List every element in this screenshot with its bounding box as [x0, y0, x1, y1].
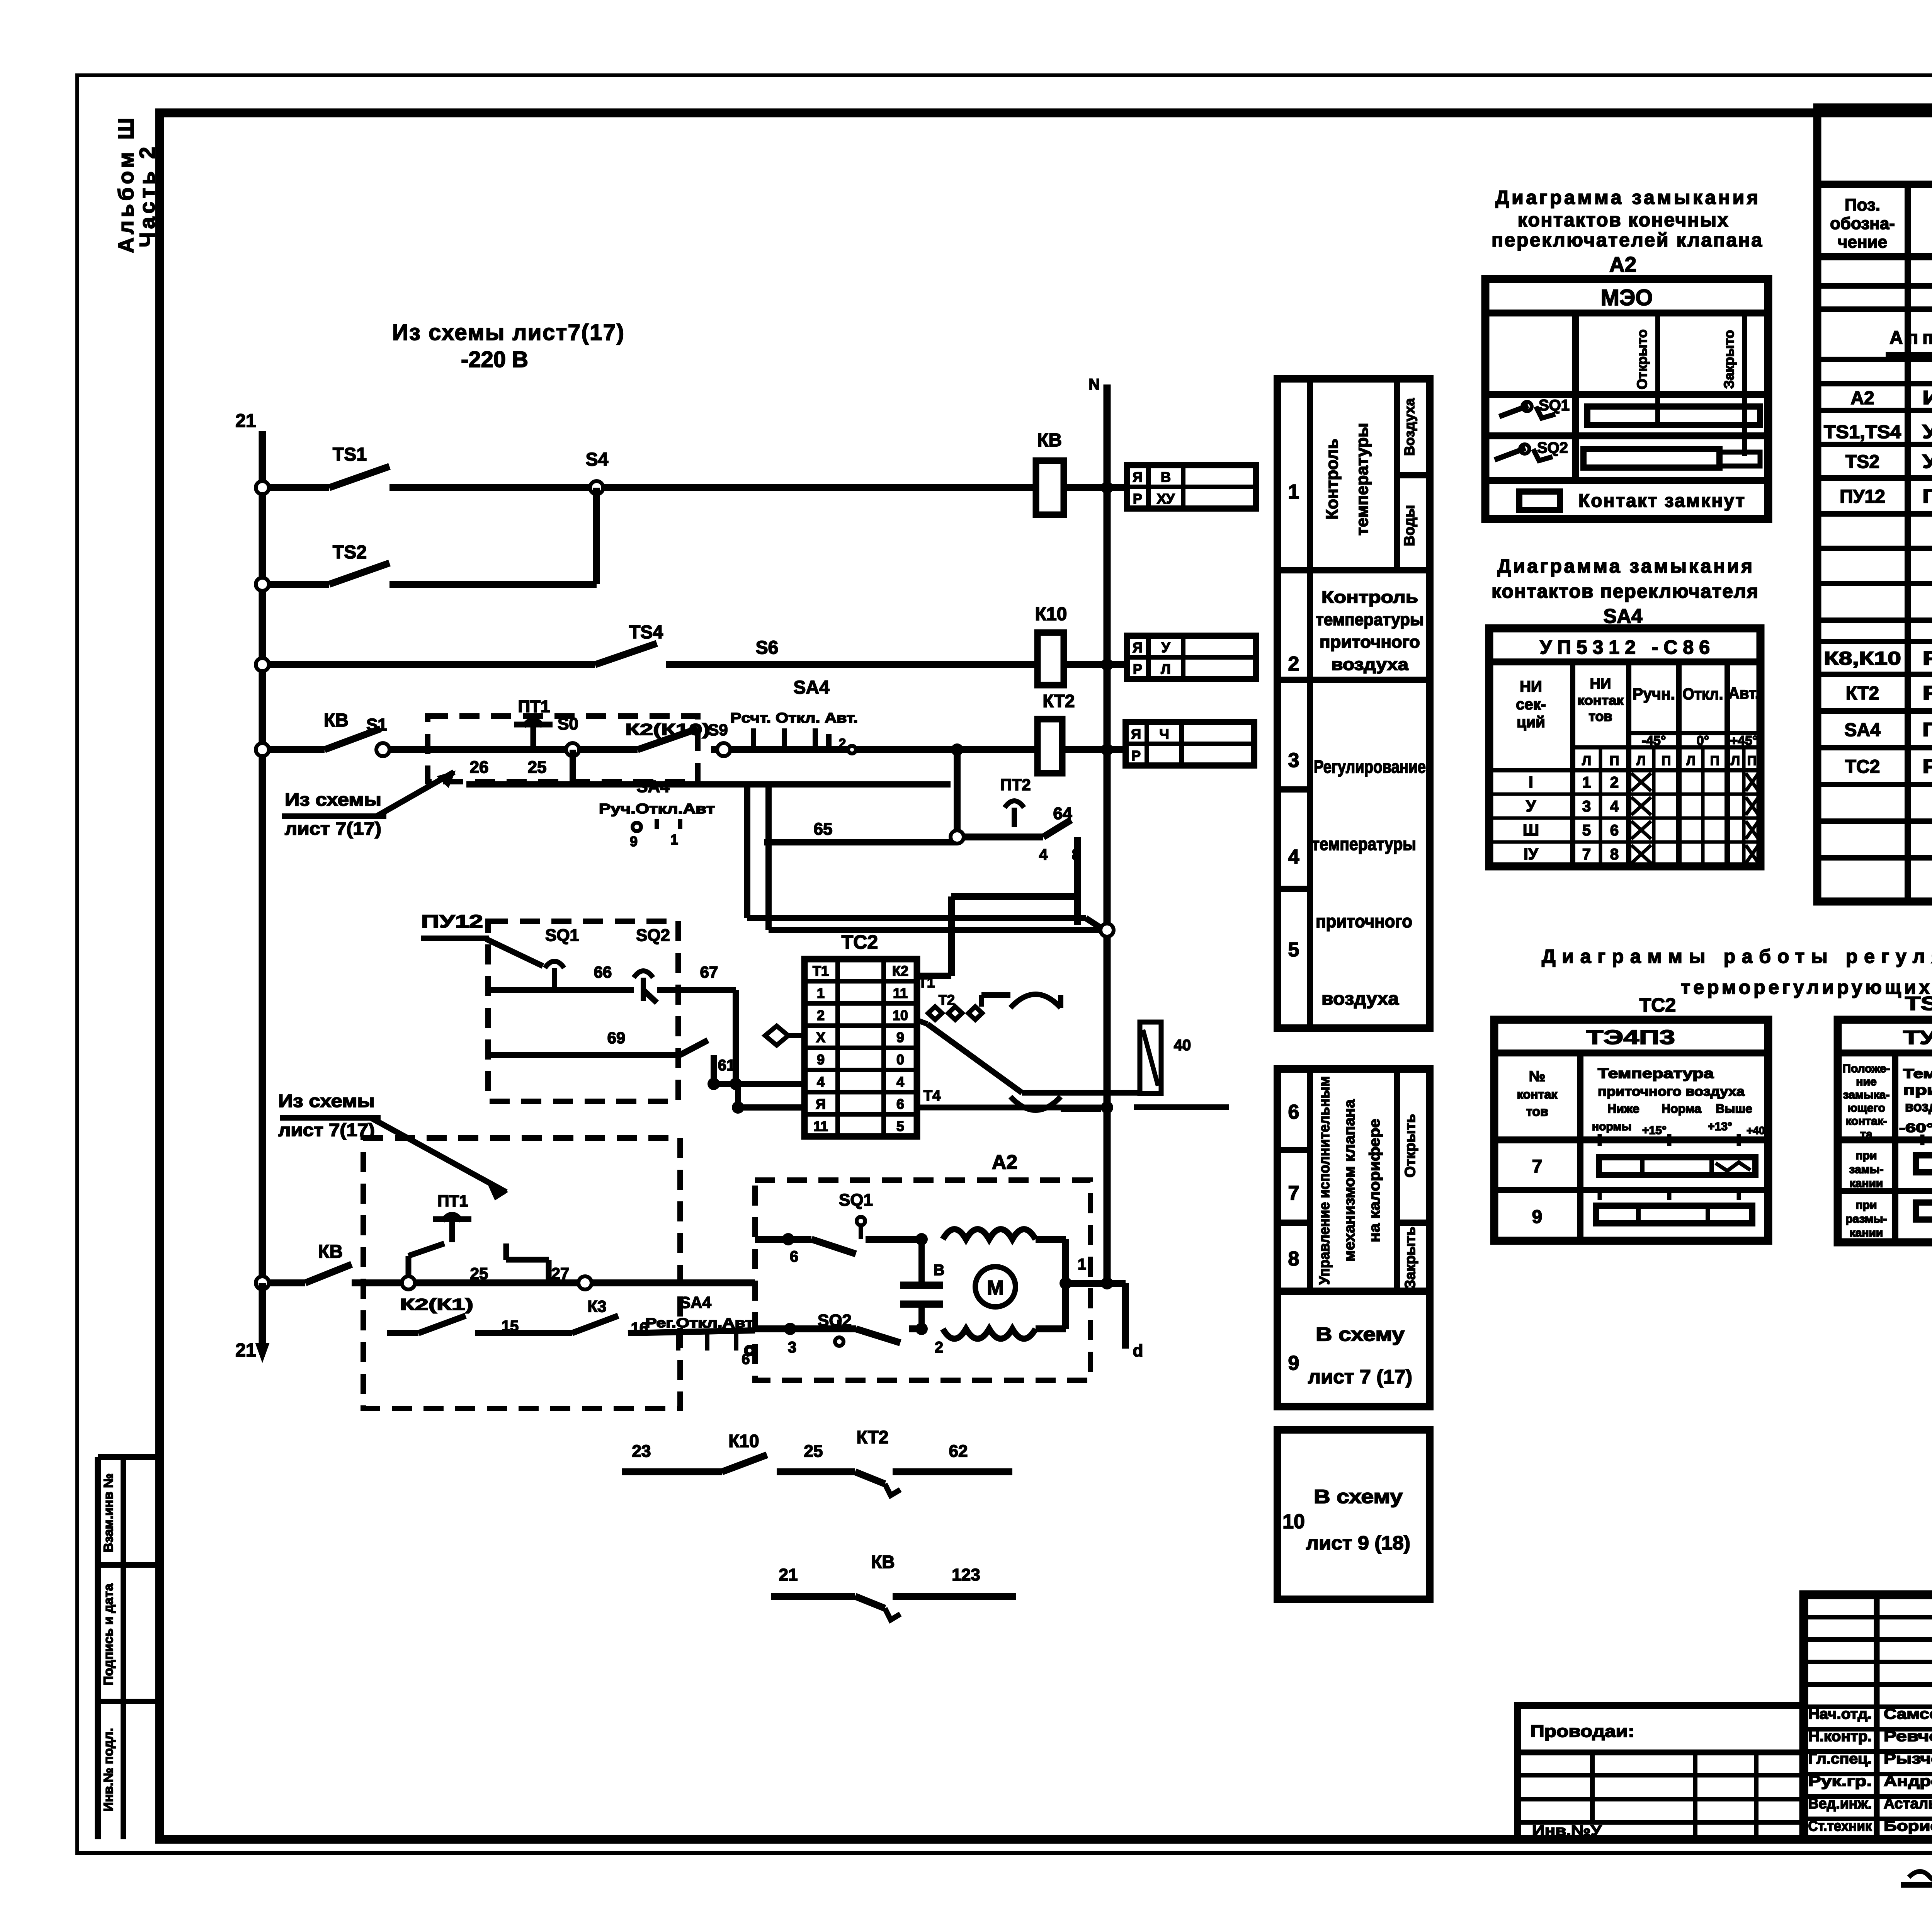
svg-text:ПУ12: ПУ12 — [421, 911, 483, 931]
svg-text:10: 10 — [893, 1007, 908, 1023]
svg-text:терморегулирующих устройств: терморегулирующих устройств — [1681, 976, 1932, 998]
svg-text:4: 4 — [817, 1074, 825, 1090]
svg-text:Поз.: Поз. — [1845, 196, 1880, 214]
svg-text:ХУ: ХУ — [1157, 491, 1175, 507]
svg-text:123: 123 — [952, 1565, 980, 1584]
svg-text:Взам.инв №: Взам.инв № — [101, 1473, 116, 1552]
svg-text:6: 6 — [790, 1248, 798, 1265]
svg-text:К2(К1): К2(К1) — [400, 1295, 473, 1313]
svg-text:Контроль: Контроль — [1323, 439, 1342, 520]
svg-text:+40: +40 — [1747, 1124, 1765, 1136]
svg-text:ТS2: ТS2 — [333, 542, 367, 563]
svg-text:Руч.Откл.Авт: Руч.Откл.Авт — [599, 801, 715, 816]
svg-text:Реле ВЛ40 -tимп. 1-10с , t: Реле ВЛ40 -tимп. 1-10с , tп 10-100с — [1922, 682, 1932, 704]
svg-text:КВ: КВ — [324, 710, 349, 731]
svg-text:Р: Р — [1133, 661, 1142, 677]
svg-text:№: № — [1529, 1068, 1545, 1085]
svg-text:механизмом клапана: механизмом клапана — [1342, 1099, 1358, 1262]
svg-text:температуры: температуры — [1353, 423, 1372, 535]
svg-text:кании: кании — [1850, 1226, 1883, 1239]
svg-text:SА4: SА4 — [1844, 720, 1881, 740]
svg-text:Аппаратура по месту: Аппаратура по месту — [1889, 328, 1932, 348]
svg-text:П: П — [1747, 754, 1757, 768]
svg-text:Проводаи:: Проводаи: — [1530, 1722, 1634, 1741]
svg-text:11: 11 — [813, 1118, 828, 1134]
svg-text:Рук.гр.: Рук.гр. — [1808, 1773, 1872, 1789]
svg-text:7: 7 — [1532, 1157, 1543, 1177]
svg-text:2: 2 — [935, 1339, 943, 1356]
svg-text:ТS4: ТS4 — [629, 622, 663, 643]
svg-text:3: 3 — [1582, 798, 1591, 815]
svg-text:62: 62 — [949, 1442, 968, 1461]
svg-text:2: 2 — [1288, 653, 1299, 675]
svg-text:Рег.Откл.Авт: Рег.Откл.Авт — [645, 1316, 753, 1330]
svg-text:Откл.: Откл. — [1683, 685, 1723, 703]
svg-text:Борисова: Борисова — [1884, 1818, 1932, 1834]
svg-text:N: N — [1089, 376, 1100, 393]
svg-text:А2: А2 — [992, 1151, 1017, 1174]
svg-text:Р: Р — [1133, 491, 1142, 507]
svg-text:SА4: SА4 — [636, 777, 670, 796]
svg-text:ТS2: ТS2 — [1845, 452, 1879, 472]
svg-text:ние: ние — [1856, 1075, 1876, 1088]
svg-text:КВ: КВ — [871, 1552, 895, 1572]
svg-text:Регулирование: Регулирование — [1314, 757, 1426, 777]
svg-text:А2: А2 — [1609, 252, 1636, 276]
svg-text:25: 25 — [804, 1442, 823, 1461]
svg-text:А2: А2 — [1850, 388, 1874, 408]
svg-text:воздуха: воздуха — [1905, 1099, 1932, 1114]
svg-text:ТУАЭ-1: ТУАЭ-1 — [1903, 1027, 1932, 1048]
svg-text:ТС2: ТС2 — [1639, 994, 1676, 1016]
svg-text:У: У — [1526, 797, 1536, 815]
svg-text:КВ: КВ — [318, 1242, 343, 1262]
svg-text:Норма: Норма — [1662, 1102, 1701, 1116]
svg-text:Положе-: Положе- — [1842, 1062, 1890, 1075]
svg-text:6: 6 — [1288, 1101, 1299, 1123]
svg-text:Я: Я — [816, 1096, 826, 1112]
svg-text:Вед.инж.: Вед.инж. — [1808, 1796, 1872, 1812]
svg-text:размы-: размы- — [1845, 1213, 1887, 1225]
svg-text:Открыть: Открыть — [1402, 1114, 1418, 1178]
svg-text:9: 9 — [817, 1052, 825, 1068]
svg-text:SА4: SА4 — [680, 1293, 711, 1311]
svg-text:В схему: В схему — [1316, 1323, 1405, 1345]
svg-text:Н.контр.: Н.контр. — [1808, 1728, 1872, 1745]
svg-text:на калорифере: на калорифере — [1367, 1119, 1383, 1242]
svg-text:S6: S6 — [756, 638, 779, 658]
svg-text:контак: контак — [1577, 693, 1624, 708]
svg-text:3: 3 — [788, 1339, 796, 1356]
svg-text:4: 4 — [1288, 846, 1299, 868]
svg-text:S4: S4 — [586, 449, 609, 470]
svg-text:обозна-: обозна- — [1830, 214, 1895, 233]
svg-text:Нач.отд.: Нач.отд. — [1808, 1706, 1872, 1722]
svg-text:Инв.№ подл.: Инв.№ подл. — [101, 1728, 116, 1812]
svg-text:23: 23 — [632, 1442, 651, 1461]
svg-text:В схему: В схему — [1314, 1486, 1403, 1507]
svg-text:Р: Р — [1131, 748, 1141, 764]
svg-text:Л: Л — [1636, 754, 1646, 768]
svg-text:1: 1 — [1582, 774, 1591, 791]
svg-text:ТS1,ТS4: ТS1,ТS4 — [1824, 422, 1901, 442]
svg-text:9: 9 — [896, 1029, 904, 1045]
svg-text:Закрыто: Закрыто — [1721, 330, 1737, 389]
svg-text:К10: К10 — [1035, 604, 1067, 624]
svg-text:Авт.: Авт. — [1728, 684, 1759, 702]
svg-text:замыка-: замыка- — [1843, 1089, 1890, 1101]
svg-text:64: 64 — [1053, 804, 1072, 823]
svg-text:ТS1, ТS4: ТS1, ТS4 — [1905, 993, 1932, 1014]
svg-text:Диаграмма замыкания: Диаграмма замыкания — [1497, 555, 1752, 577]
svg-text:при: при — [1856, 1199, 1877, 1211]
svg-text:ТС2: ТС2 — [842, 931, 878, 953]
svg-text:+13°: +13° — [1708, 1120, 1732, 1133]
svg-text:Андреева: Андреева — [1884, 1773, 1932, 1789]
svg-text:Л: Л — [1686, 754, 1696, 768]
svg-text:SА4: SА4 — [1603, 605, 1642, 628]
svg-text:замы-: замы- — [1849, 1163, 1883, 1176]
svg-text:SQ1: SQ1 — [839, 1191, 873, 1209]
svg-text:Контакт замкнут: Контакт замкнут — [1578, 491, 1745, 511]
svg-text:Ревченко: Ревченко — [1884, 1728, 1932, 1745]
svg-text:S1: S1 — [366, 715, 387, 734]
svg-text:4: 4 — [1039, 846, 1048, 863]
svg-text:Ручн.: Ручн. — [1633, 685, 1675, 703]
svg-text:Ш: Ш — [1523, 821, 1539, 839]
svg-text:Закрыть: Закрыть — [1402, 1226, 1418, 1289]
svg-text:Из схемы: Из схемы — [278, 1091, 375, 1111]
svg-text:Открыто: Открыто — [1634, 329, 1650, 390]
svg-text:нормы: нормы — [1592, 1120, 1631, 1133]
svg-text:40: 40 — [1174, 1037, 1191, 1054]
svg-text:КТ2: КТ2 — [857, 1427, 889, 1447]
svg-text:КТ2: КТ2 — [1043, 691, 1075, 711]
svg-text:+15°: +15° — [1642, 1124, 1667, 1137]
svg-text:К2: К2 — [892, 963, 908, 979]
svg-text:2: 2 — [817, 1007, 825, 1023]
svg-text:ПТ2: ПТ2 — [1000, 776, 1031, 794]
svg-text:Л: Л — [1582, 754, 1591, 768]
svg-text:тов: тов — [1588, 708, 1612, 724]
svg-text:S9: S9 — [708, 721, 728, 739]
svg-text:ющего: ющего — [1847, 1102, 1885, 1114]
svg-text:кании: кании — [1850, 1177, 1883, 1190]
svg-text:Инв.№У: Инв.№У — [1532, 1823, 1602, 1839]
svg-text:67: 67 — [700, 963, 718, 981]
svg-text:Реле РПУ-2-М36220У3Б И~: Реле РПУ-2-М36220У3Б И~220 В — [1922, 647, 1932, 669]
svg-text:контак-: контак- — [1845, 1115, 1887, 1128]
svg-text:Т4: Т4 — [923, 1088, 940, 1104]
svg-text:Самсонов: Самсонов — [1884, 1706, 1932, 1722]
svg-text:Воды: Воды — [1401, 505, 1418, 546]
svg-text:Ст.техник: Ст.техник — [1808, 1818, 1872, 1834]
svg-text:контак: контак — [1517, 1087, 1558, 1101]
svg-text:Подпись и дата: Подпись и дата — [101, 1583, 116, 1686]
svg-text:контактов конечных: контактов конечных — [1518, 209, 1728, 231]
svg-text:воздуха: воздуха — [1321, 988, 1399, 1009]
svg-text:5: 5 — [1288, 939, 1299, 961]
svg-text:Л: Л — [1731, 754, 1740, 768]
svg-text:-220 В: -220 В — [461, 347, 528, 372]
svg-text:21: 21 — [235, 1340, 256, 1361]
svg-text:Устройство терморегулирующее: Устройство терморегулирующее ТУАЭ-4 — [1922, 451, 1932, 472]
svg-text:Контроль: Контроль — [1321, 588, 1418, 607]
svg-text:К8,К10: К8,К10 — [1824, 648, 1901, 669]
svg-text:Температура: Температура — [1903, 1067, 1932, 1081]
svg-text:Гл.спец.: Гл.спец. — [1808, 1751, 1872, 1767]
svg-text:ПТ1: ПТ1 — [518, 697, 550, 716]
svg-text:лист 7(17): лист 7(17) — [278, 1120, 375, 1140]
svg-text:ций: ций — [1517, 714, 1545, 731]
svg-text:НИ: НИ — [1520, 678, 1542, 695]
svg-text:Управление исполнительным: Управление исполнительным — [1316, 1076, 1333, 1285]
svg-text:Ниже: Ниже — [1607, 1102, 1639, 1116]
svg-text:П: П — [1610, 754, 1619, 768]
svg-text:ПУ12: ПУ12 — [1840, 486, 1885, 507]
svg-text:6: 6 — [1610, 822, 1619, 839]
svg-text:КВ: КВ — [1037, 430, 1062, 451]
svg-text:3: 3 — [1288, 749, 1299, 772]
svg-text:переключателей клапана: переключателей клапана — [1492, 229, 1762, 251]
svg-text:Пост управления ПКЕ222-2У3: Пост управления ПКЕ222-2У3 — [1922, 485, 1932, 507]
svg-text:SQ2: SQ2 — [1537, 439, 1568, 456]
svg-text:П: П — [1662, 754, 1671, 768]
svg-text:15: 15 — [502, 1318, 519, 1335]
svg-text:Температура: Температура — [1598, 1065, 1714, 1081]
svg-text:Исполнительный механизм МЭО: Исполнительный механизм МЭО ~220 В — [1922, 387, 1932, 408]
svg-text:приточного: приточного — [1903, 1082, 1932, 1098]
svg-text:5: 5 — [1582, 822, 1591, 839]
svg-text:11: 11 — [893, 985, 908, 1001]
svg-text:5: 5 — [896, 1118, 904, 1134]
svg-text:Переключатель УП5312-С86: Переключатель УП5312-С86 — [1922, 719, 1932, 740]
svg-text:Т1: Т1 — [813, 963, 829, 979]
svg-text:Я: Я — [1133, 640, 1143, 655]
svg-text:Я: Я — [1131, 726, 1141, 742]
svg-text:9: 9 — [1288, 1352, 1299, 1374]
svg-text:9: 9 — [1532, 1207, 1543, 1227]
svg-text:Регулятор температуры ТЭ4П3: Регулятор температуры ТЭ4П3 И~220 В — [1922, 755, 1932, 777]
svg-text:7: 7 — [1582, 846, 1591, 863]
svg-text:приточного: приточного — [1320, 633, 1420, 651]
svg-text:d: d — [1133, 1341, 1143, 1360]
svg-text:ТС2: ТС2 — [1845, 757, 1880, 777]
svg-text:контактов переключателя: контактов переключателя — [1492, 580, 1758, 602]
svg-text:температуры: температуры — [1312, 834, 1416, 854]
svg-text:61: 61 — [718, 1057, 735, 1074]
svg-text:IУ: IУ — [1524, 845, 1539, 863]
svg-text:Диаграмма замыкания: Диаграмма замыкания — [1495, 187, 1758, 208]
svg-text:ТЭ4П3: ТЭ4П3 — [1586, 1026, 1675, 1049]
svg-text:21: 21 — [779, 1565, 798, 1584]
svg-text:SQ1: SQ1 — [545, 926, 579, 945]
svg-text:У: У — [1162, 640, 1170, 655]
svg-text:SQ2: SQ2 — [636, 926, 670, 945]
svg-text:УП5312 -С86: УП5312 -С86 — [1540, 636, 1710, 658]
svg-text:МЭО: МЭО — [1601, 285, 1653, 310]
svg-text:при: при — [1856, 1149, 1877, 1162]
svg-text:лист 7 (17): лист 7 (17) — [1308, 1366, 1412, 1388]
svg-text:4: 4 — [1610, 798, 1619, 815]
svg-text:Рызченко: Рызченко — [1884, 1751, 1932, 1767]
svg-text:25: 25 — [528, 758, 547, 777]
svg-text:НИ: НИ — [1590, 676, 1611, 692]
svg-text:лист 9 (18): лист 9 (18) — [1306, 1532, 1410, 1554]
svg-text:Х: Х — [816, 1029, 825, 1045]
svg-text:-60° +3° +5° +40°: -60° +3° +5° +40° — [1899, 1121, 1932, 1135]
svg-text:Воздуха: Воздуха — [1401, 398, 1417, 456]
svg-text:8: 8 — [1288, 1248, 1299, 1270]
svg-text:ПТ1: ПТ1 — [437, 1192, 468, 1210]
svg-text:Ч: Ч — [1159, 726, 1169, 742]
svg-text:В: В — [934, 1262, 945, 1279]
svg-text:10: 10 — [1282, 1510, 1305, 1533]
svg-text:приточного воздуха: приточного воздуха — [1598, 1084, 1745, 1099]
svg-text:65: 65 — [814, 820, 833, 839]
svg-text:ТS1: ТS1 — [333, 444, 367, 465]
svg-text:2: 2 — [1610, 774, 1619, 791]
svg-text:КТ2: КТ2 — [1846, 683, 1879, 704]
svg-text:приточного: приточного — [1316, 911, 1412, 931]
svg-text:26: 26 — [470, 758, 489, 777]
svg-text:6: 6 — [896, 1096, 904, 1112]
svg-text:69: 69 — [607, 1029, 626, 1047]
svg-text:SА4: SА4 — [793, 677, 830, 698]
svg-text:1: 1 — [1288, 481, 1299, 503]
svg-text:9: 9 — [630, 833, 638, 849]
svg-text:2: 2 — [839, 736, 846, 751]
svg-text:21: 21 — [235, 411, 256, 431]
svg-text:сек-: сек- — [1516, 696, 1546, 713]
svg-text:К3: К3 — [588, 1297, 607, 1315]
svg-text:Рсчт. Откл. Авт.: Рсчт. Откл. Авт. — [730, 710, 858, 726]
svg-text:4: 4 — [896, 1074, 904, 1090]
svg-text:0: 0 — [896, 1052, 904, 1068]
svg-text:тов: тов — [1526, 1104, 1548, 1119]
svg-text:1: 1 — [1078, 1256, 1086, 1273]
svg-text:Астальцева: Астальцева — [1884, 1796, 1932, 1812]
svg-text:воздуха: воздуха — [1331, 655, 1409, 674]
svg-text:температуры: температуры — [1316, 610, 1424, 629]
svg-text:та: та — [1860, 1128, 1872, 1141]
svg-text:I: I — [1529, 773, 1533, 791]
svg-text:К10: К10 — [728, 1431, 759, 1451]
svg-text:SQ1: SQ1 — [1539, 397, 1570, 414]
svg-text:1: 1 — [817, 985, 825, 1001]
svg-text:8: 8 — [1610, 846, 1619, 863]
svg-text:Из схемы: Из схемы — [285, 789, 381, 810]
svg-text:7: 7 — [1288, 1182, 1299, 1204]
svg-text:Л: Л — [1161, 661, 1170, 677]
svg-text:М: М — [987, 1277, 1003, 1299]
svg-text:Я: Я — [1133, 469, 1143, 485]
svg-text:66: 66 — [594, 963, 612, 981]
svg-text:Устройство терморегулирующее: Устройство терморегулирующее ТУАЭ-1 — [1922, 421, 1932, 442]
svg-text:Выше: Выше — [1716, 1102, 1752, 1116]
svg-text:Т1: Т1 — [918, 975, 935, 990]
svg-text:Т2: Т2 — [939, 992, 955, 1008]
svg-text:В: В — [1161, 469, 1171, 485]
svg-text:чение: чение — [1838, 233, 1887, 252]
svg-text:П: П — [1710, 754, 1719, 768]
svg-text:1: 1 — [670, 832, 678, 847]
svg-text:лист 7(17): лист 7(17) — [285, 818, 381, 839]
